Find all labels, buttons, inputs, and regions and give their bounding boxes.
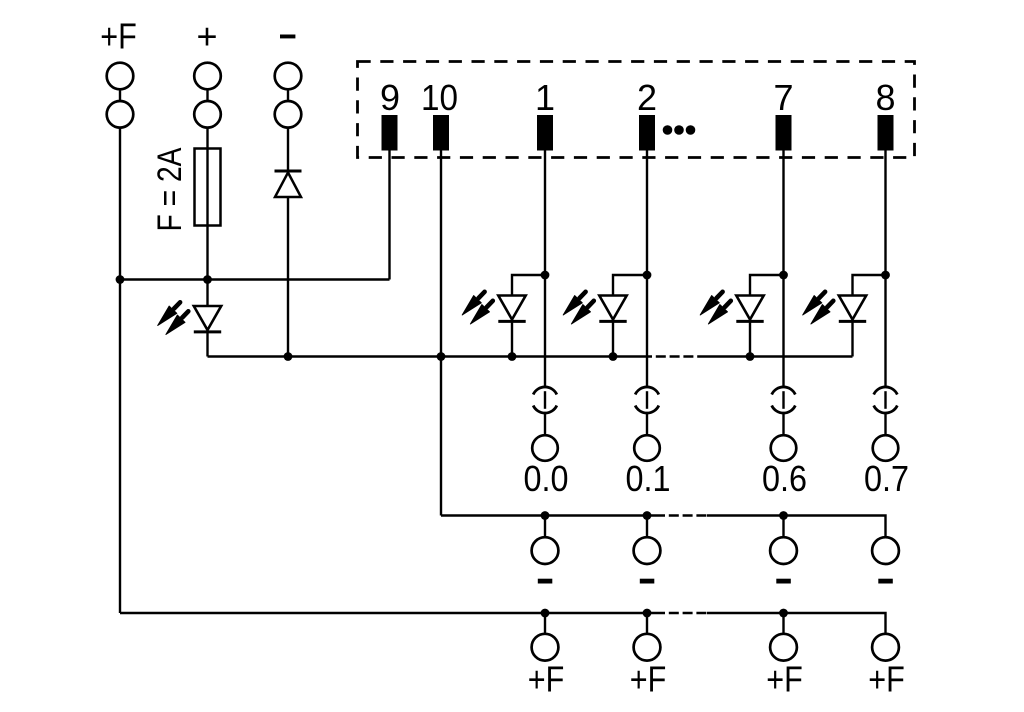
svg-text:+F: +F	[868, 659, 905, 700]
label minus ch6	[776, 579, 791, 584]
status LED U1 (power)	[158, 302, 222, 334]
+F terminal circle ch1	[634, 634, 661, 661]
junction node ch1 branch	[643, 271, 652, 280]
svg-text:9: 9	[380, 77, 400, 118]
svg-text:+: +	[196, 16, 217, 57]
svg-text:+F: +F	[100, 16, 137, 57]
rail minus dashed continuation section	[665, 514, 707, 516]
svg-text:+F: +F	[528, 659, 565, 700]
ellipsis pins 3..6	[663, 125, 696, 135]
wire pin 8 down to plug contact	[884, 151, 886, 388]
svg-text:7: 7	[773, 77, 793, 118]
wire plug ch0 to output circle	[544, 413, 546, 436]
wire LED ch6 cathode to 0V rail	[749, 321, 751, 356]
wire minus stub ch6	[782, 516, 784, 538]
wire pin 10 down to minus rail	[440, 151, 442, 516]
rail 0V solid left section	[208, 355, 653, 357]
label − (top)	[280, 35, 295, 39]
+F terminal circle ch6	[770, 634, 797, 661]
status LED ch7	[803, 292, 867, 324]
wire pin 1 down to plug contact	[544, 151, 546, 388]
+F terminal circle ch0	[532, 634, 559, 661]
label +F ch6	[766, 659, 803, 700]
label 0.6	[762, 458, 807, 499]
svg-text:10: 10	[421, 77, 458, 118]
pin 1 label	[535, 77, 555, 118]
label 0.1	[626, 458, 671, 499]
rail +24V (fused plus)	[120, 278, 390, 280]
wire +F stub ch1	[646, 613, 648, 634]
junction node 0V at LED ch1	[609, 352, 618, 361]
wire minus stub ch0	[544, 516, 546, 538]
wire LED ch7 cathode to 0V rail	[851, 321, 853, 356]
wire +F vertical down to bottom rail	[119, 128, 121, 613]
pin 9 pad	[382, 115, 398, 151]
wire +F stub ch0	[544, 613, 546, 634]
status LED ch6	[700, 292, 764, 324]
wire pin 9 down to +24V rail	[388, 151, 390, 280]
status LED ch1	[563, 292, 627, 324]
wire LED ch6 branch	[750, 275, 784, 296]
junction node +F rail ch0	[541, 609, 550, 618]
terminal +F double circle	[107, 63, 134, 128]
wire +F stub ch6	[782, 613, 784, 634]
svg-text:+F: +F	[766, 659, 803, 700]
terminal + double circle	[194, 63, 221, 128]
minus terminal circle ch6	[770, 537, 797, 564]
output terminal circle ch1	[634, 435, 660, 461]
label minus ch0	[538, 579, 553, 584]
plug contact ch1	[635, 387, 659, 413]
label 0.7	[864, 458, 909, 499]
junction node +F rail ch6	[779, 609, 788, 618]
wire LED ch7 branch	[853, 275, 886, 296]
wire plug ch7 to output circle	[884, 413, 886, 436]
rail +F solid right section	[707, 613, 886, 634]
plug contact ch6	[772, 387, 796, 413]
svg-text:8: 8	[875, 77, 895, 118]
label +F (top)	[100, 16, 137, 57]
junction node ch6 branch	[779, 271, 788, 280]
wire LED ch0 branch	[512, 275, 545, 296]
wire LED ch0 cathode to 0V rail	[511, 321, 513, 356]
rail minus solid right section	[707, 516, 886, 538]
plug contact ch0	[533, 387, 557, 413]
label +F ch1	[630, 659, 667, 700]
diode D1 (reverse polarity protection)	[275, 171, 302, 197]
pin 8 pad	[878, 115, 894, 151]
connector outline (dashed box)	[358, 62, 915, 158]
junction node fused plus at LED U1	[203, 275, 212, 284]
junction node 0V at LED ch0	[508, 352, 517, 361]
junction node 0V at pin 10 wire	[437, 352, 446, 361]
pin 7 label	[773, 77, 793, 118]
junction node +F rail ch1	[643, 609, 652, 618]
wire minus stub ch1	[646, 516, 648, 538]
rail minus solid left section	[441, 514, 665, 516]
label +F ch0	[528, 659, 565, 700]
+F terminal circle ch7	[872, 634, 899, 661]
pin 7 pad	[776, 115, 792, 151]
wire LED ch1 branch	[613, 275, 647, 296]
svg-text:0.7: 0.7	[864, 458, 909, 499]
wire pin 2 down to plug contact	[646, 151, 648, 388]
wire diode to 0V rail	[287, 197, 289, 357]
wire fuse to +24V node	[206, 226, 208, 280]
pin 2 pad	[639, 115, 655, 151]
rail +F solid left section	[120, 612, 665, 614]
junction node fused plus at +F wire	[116, 275, 125, 284]
rail 0V solid right section	[705, 355, 853, 357]
svg-text:1: 1	[535, 77, 555, 118]
pin 10 label	[421, 77, 458, 118]
junction node minus rail ch0	[541, 511, 550, 520]
minus terminal circle ch1	[634, 537, 661, 564]
junction node minus rail ch1	[643, 511, 652, 520]
pin 8 label	[875, 77, 895, 118]
label 0.0	[524, 458, 569, 499]
plug contact ch7	[874, 387, 898, 413]
wire + circles to fuse	[206, 128, 208, 149]
label minus ch7	[878, 579, 893, 584]
minus terminal circle ch7	[872, 537, 899, 564]
label F = 2A	[151, 147, 189, 231]
output terminal circle ch0	[532, 435, 558, 461]
svg-text:0.1: 0.1	[626, 458, 671, 499]
wire − circles to diode	[287, 128, 289, 171]
pin 9 label	[380, 77, 400, 118]
rail 0V dashed continuation section	[652, 355, 705, 357]
minus terminal circle ch0	[532, 537, 559, 564]
wire pin 7 down to plug contact	[782, 151, 784, 388]
label +F ch7	[868, 659, 905, 700]
junction node ch7 branch	[881, 271, 890, 280]
label minus ch1	[640, 579, 655, 584]
wire LED ch1 cathode to 0V rail	[612, 321, 614, 356]
wire LED U1 cathode to 0V rail	[206, 332, 208, 357]
fuse F1 body	[195, 149, 221, 226]
svg-text:+F: +F	[630, 659, 667, 700]
svg-text:0.0: 0.0	[524, 458, 569, 499]
rail +F dashed continuation section	[665, 612, 707, 614]
pin 1 pad	[537, 115, 553, 151]
junction node ch0 branch	[541, 271, 550, 280]
pin 10 pad	[433, 115, 449, 151]
junction node minus rail ch6	[779, 511, 788, 520]
terminal − double circle	[275, 63, 302, 128]
pin 2 label	[637, 77, 657, 118]
output terminal circle ch6	[771, 435, 797, 461]
junction node 0V at LED ch6	[746, 352, 755, 361]
svg-text:2: 2	[637, 77, 657, 118]
status LED ch0	[462, 292, 526, 324]
wire plug ch6 to output circle	[782, 413, 784, 436]
junction node 0V at minus wire	[284, 352, 293, 361]
svg-text:0.6: 0.6	[762, 458, 807, 499]
wire node to LED U1 anode	[206, 280, 208, 307]
svg-text:F = 2A: F = 2A	[151, 147, 189, 231]
label + (top)	[196, 16, 217, 57]
wire plug ch1 to output circle	[646, 413, 648, 436]
output terminal circle ch7	[873, 435, 899, 461]
